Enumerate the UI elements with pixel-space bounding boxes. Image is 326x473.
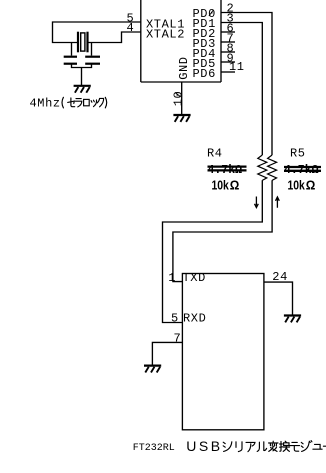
caption katakana ji [301,441,312,452]
wire stub PD2 pin 6 [221,31,235,33]
svg-text:FT232RL: FT232RL [133,443,175,454]
caption katakana a [246,442,255,451]
label katakana ra [75,99,82,107]
svg-text:7: 7 [174,331,182,345]
resistor R5 zigzag [268,155,277,180]
svg-text:USB: USB [186,438,222,454]
struck-out old value near R5 [284,164,321,177]
wire stub PD3 pin 7 [221,41,235,43]
svg-text:4Mhz: 4Mhz [30,97,61,111]
svg-text:XTAL2: XTAL2 [146,28,185,42]
wire capacitors to ground node [72,65,92,86]
wire crystal left to capacitor C1 [71,43,73,56]
IC U1 microcontroller box (top edge above canvas) [141,0,221,82]
ground GND3 below pin7 [144,366,161,373]
ground GND2 below IC [173,115,190,122]
wire stub PD5 pin 9 [221,61,235,63]
svg-text:R4: R4 [207,147,223,161]
wire pin5 XTAL1 to crystal left terminal [53,22,141,43]
wire module pin7 to ground [152,342,182,365]
caption katakana small yu [313,444,322,449]
svg-text:PD6: PD6 [193,67,216,81]
label katakana small tsu [91,100,96,107]
wire PD0 pin 2 to R5 top [221,13,272,156]
label open paren [62,97,63,108]
svg-text:10k: 10k [288,178,306,192]
arrow down on R4 branch [255,197,259,208]
wire crystal right to capacitor C2 [91,43,93,56]
wire module pin24 to ground [264,282,293,315]
caption FT232RL [133,438,223,454]
resistor R4 zigzag [258,155,267,180]
caption katakana ru [257,442,266,452]
label katakana ku [97,98,103,106]
svg-text:5: 5 [171,311,179,325]
svg-text:RXD: RXD [183,311,206,325]
wire R4 bottom to module pin5 RXD [163,180,263,322]
ground GND1 below crystal capacitors [74,86,91,93]
svg-text:TXD: TXD [183,271,206,285]
caption katakana shi [223,442,232,452]
svg-text:R5: R5 [290,147,306,161]
capacitor C1 [64,57,77,64]
svg-text:Ω: Ω [230,178,240,193]
caption katakana mo [290,442,300,451]
ground GND4 below pin24 [284,316,301,323]
wire R5 bottom to module pin1 TXD [173,180,272,281]
wire PD1 pin 3 to R4 top [221,23,262,156]
svg-text:GND: GND [177,56,191,79]
caption katakana ri [236,442,242,452]
label close paren [105,97,106,108]
struck-out old value near R4 [208,164,247,177]
label 4Mhz (ceralock) [30,97,61,111]
caption kanji hen (change) [269,441,278,451]
label katakana se [68,98,75,107]
caption chouon bar (clipped) [323,445,326,447]
svg-text:10k: 10k [212,178,230,192]
arrow up on R5 branch [276,197,280,208]
label katakana ro [84,99,90,105]
svg-text:10: 10 [171,91,185,107]
svg-text:Ω: Ω [306,178,316,193]
caption kanji kan (exchange) [280,441,290,451]
wire stub PD6 pin 11 [221,71,235,73]
crystal X1 ceramic resonator 4MHz [78,32,88,53]
wire IC GND pin 10 down [181,82,183,114]
module U2 FT232RL box [182,274,264,430]
svg-text:1: 1 [168,271,176,285]
wire stub PD4 pin 8 [221,51,235,53]
svg-text:4: 4 [127,21,135,35]
capacitor C2 [85,57,100,64]
wire pin4 XTAL2 to crystal right terminal [89,32,141,43]
